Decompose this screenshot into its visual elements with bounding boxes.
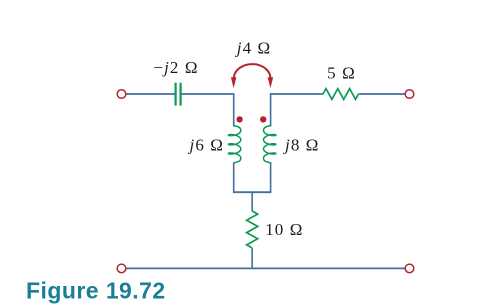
wire: right top rail from junction to resistor R1: [271, 93, 323, 95]
svg-text:j8 Ω: j8 Ω: [283, 135, 320, 154]
svg-text:5 Ω: 5 Ω: [327, 64, 356, 83]
wire: left vertical from top rail down to inductor L1: [233, 93, 235, 126]
terminal: top-right output port: [405, 90, 414, 99]
capacitor C1 (-j2 ohm) right plate: [180, 83, 182, 106]
wire: capacitor to left junction: [181, 93, 234, 95]
wire: center stub from coil box down to resistor R2: [251, 192, 253, 211]
terminal: top-left input port: [117, 90, 126, 99]
dot marker of L2: [260, 116, 266, 122]
wire: top-left rail from input terminal to capacitor: [126, 93, 176, 95]
resistor R1 (5 ohm): [323, 89, 359, 100]
resistor R2 (10 ohm): [247, 211, 258, 248]
wire: resistor R1 to right terminal: [359, 93, 406, 95]
inductor L2 (j8 ohm) coil: [264, 126, 276, 163]
svg-text:10 Ω: 10 Ω: [265, 220, 303, 239]
svg-text:Figure 19.72: Figure 19.72: [26, 277, 166, 303]
wire: bottom of coil box joining L1 and L2: [233, 191, 272, 193]
coupling arrowhead left: [231, 77, 237, 88]
terminal: bottom-left port: [117, 264, 126, 273]
wire: L1 bottom to coil-box bottom: [233, 162, 235, 192]
wire: L2 bottom to coil-box bottom: [270, 162, 272, 192]
svg-text:j6 Ω: j6 Ω: [187, 135, 224, 154]
inductor L1 (j6 ohm) coil: [228, 126, 240, 163]
wire: bottom rail: [126, 267, 406, 269]
svg-text:j4 Ω: j4 Ω: [235, 39, 272, 58]
mutual coupling arc M (j4 ohm): [234, 64, 271, 78]
wire: right vertical from top rail down to inductor L2: [270, 93, 272, 126]
dot marker of L1: [236, 116, 242, 122]
wire: resistor R2 down to bottom rail: [251, 248, 253, 268]
svg-text:−j2 Ω: −j2 Ω: [153, 58, 198, 77]
terminal: bottom-right port: [405, 264, 414, 273]
capacitor C1 (-j2 ohm) left plate: [175, 83, 177, 106]
coupling arrowhead right: [268, 77, 274, 88]
